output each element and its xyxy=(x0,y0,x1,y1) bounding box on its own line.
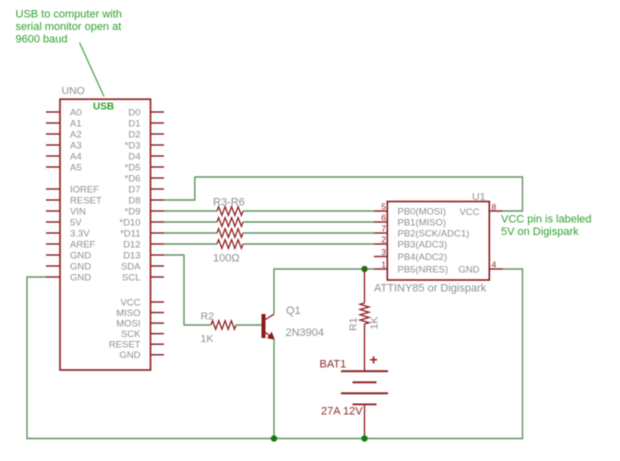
pin stub UNO left GND xyxy=(46,276,60,278)
svg-text:A1: A1 xyxy=(70,118,82,129)
pin stub UNO right *D5 xyxy=(151,166,165,168)
svg-text:9600 baud: 9600 baud xyxy=(16,34,68,46)
svg-text:VCC: VCC xyxy=(120,297,140,308)
pin stub UNO left A0 xyxy=(46,111,60,113)
svg-text:ATTINY85 or Digispark: ATTINY85 or Digispark xyxy=(374,282,487,294)
resistor R3 (100 ohm) xyxy=(217,207,243,216)
svg-text:*D3: *D3 xyxy=(125,140,141,151)
svg-text:D2: D2 xyxy=(128,129,140,140)
svg-text:A2: A2 xyxy=(70,129,82,140)
wire D13 to R2 (base drive) xyxy=(164,255,211,325)
lead R1 bottom to BAT1 xyxy=(364,324,366,371)
svg-text:5V on Digispark: 5V on Digispark xyxy=(501,226,579,238)
svg-text:VCC pin is labeled: VCC pin is labeled xyxy=(501,214,592,226)
svg-text:A5: A5 xyxy=(70,162,82,173)
svg-text:VCC: VCC xyxy=(459,207,479,218)
svg-text:*D10: *D10 xyxy=(119,217,140,228)
svg-text:SCL: SCL xyxy=(122,272,140,283)
svg-text:AREF: AREF xyxy=(70,239,96,250)
svg-text:PB4(ADC2): PB4(ADC2) xyxy=(398,252,448,263)
svg-text:4: 4 xyxy=(492,260,497,270)
svg-text:8: 8 xyxy=(492,202,497,212)
svg-text:RESET: RESET xyxy=(70,195,102,206)
pin stub U1 pin 2 (PB3(ADC3)) xyxy=(374,243,387,245)
svg-text:7: 7 xyxy=(381,224,386,234)
svg-text:serial monitor open at: serial monitor open at xyxy=(16,21,122,33)
pin stub U1 pin 7 (PB2(SCK/ADC1)) xyxy=(374,232,387,234)
svg-text:USB to computer with: USB to computer with xyxy=(16,8,122,20)
wire UNO GND to ground bus xyxy=(27,269,523,439)
svg-text:UNO: UNO xyxy=(62,85,85,97)
wire R6 right to U1 xyxy=(243,243,374,245)
IC UNO: Arduino UNO body xyxy=(60,99,151,370)
svg-text:R1: R1 xyxy=(348,317,360,331)
svg-text:MOSI: MOSI xyxy=(116,318,140,329)
pin stub UNO right SCL xyxy=(151,276,165,278)
transistor Q1 collector lead xyxy=(266,314,275,319)
resistor R2 (1K) xyxy=(211,321,236,330)
svg-text:2: 2 xyxy=(381,235,386,245)
pin stub U1 pin 3 (PB4(ADC2)) xyxy=(374,256,387,258)
transistor Q1 emitter arrow xyxy=(267,332,275,340)
svg-text:IOREF: IOREF xyxy=(70,184,99,195)
pin stub UNO left 5V xyxy=(46,221,60,223)
svg-text:SDA: SDA xyxy=(121,261,141,272)
pin stub UNO right VCC (ICSP) xyxy=(151,301,165,303)
junction node BAT1/ground bus xyxy=(361,435,367,441)
pin stub UNO left A1 xyxy=(46,122,60,124)
pin stub UNO right *D6 xyxy=(151,177,165,179)
svg-text:2N3904: 2N3904 xyxy=(286,327,325,339)
svg-text:3: 3 xyxy=(381,247,386,257)
svg-text:GND: GND xyxy=(70,250,91,261)
pin stub UNO left GND xyxy=(46,254,60,256)
wire R5 right to U1 xyxy=(243,232,374,234)
svg-text:PB1(MISO): PB1(MISO) xyxy=(398,217,447,228)
transistor Q1 2N3904 base bar xyxy=(262,314,266,338)
pin stub U1 pin 8 (VCC) xyxy=(489,210,502,212)
pin stub UNO right SDA xyxy=(151,265,165,267)
resistor R4 (100 ohm) xyxy=(217,218,243,227)
svg-text:*D11: *D11 xyxy=(120,228,140,239)
IC U1 ATTINY85 body xyxy=(387,202,489,281)
svg-text:100Ω: 100Ω xyxy=(213,253,240,265)
pin stub UNO right *D11 xyxy=(151,232,165,234)
wire BAT1 negative to ground bus xyxy=(364,404,366,438)
resistor R6 (100 ohm) xyxy=(217,240,243,249)
svg-text:D13: D13 xyxy=(123,250,140,261)
wire *D9..D12 row to R6 left xyxy=(164,243,217,245)
pin stub UNO right D7 xyxy=(151,188,165,190)
battery BAT1 plate 4 (short) xyxy=(353,403,377,405)
svg-text:Q1: Q1 xyxy=(286,305,301,317)
svg-text:R3-R6: R3-R6 xyxy=(213,197,245,209)
svg-text:GND: GND xyxy=(70,261,91,272)
resistor R1 (1K) xyxy=(360,303,369,324)
wire Q1 emitter to ground bus xyxy=(273,339,275,439)
battery BAT1 plate 2 (short) xyxy=(353,381,377,383)
pin stub UNO left A4 xyxy=(46,155,60,157)
svg-text:D1: D1 xyxy=(128,118,140,129)
junction node PB5/R1 xyxy=(361,266,367,272)
svg-text:R2: R2 xyxy=(201,311,215,323)
wire R3 right to U1 xyxy=(243,210,374,212)
svg-text:1: 1 xyxy=(381,260,386,270)
wire D8 to U1 VCC (net VCC) xyxy=(164,177,523,211)
transistor Q1 emitter lead xyxy=(266,333,275,340)
pin stub UNO right MISO (ICSP) xyxy=(151,312,165,314)
pin stub UNO left A3 xyxy=(46,144,60,146)
svg-text:D8: D8 xyxy=(128,195,140,206)
svg-text:A4: A4 xyxy=(70,151,82,162)
pin stub U1 pin 4 (GND) xyxy=(489,268,502,270)
pin stub UNO left 3.3V xyxy=(46,232,60,234)
pin stub UNO left A5 xyxy=(46,166,60,168)
wire R4 right to U1 xyxy=(243,221,374,223)
svg-text:D7: D7 xyxy=(128,184,140,195)
svg-text:*D9: *D9 xyxy=(125,206,141,217)
note leader line to USB xyxy=(80,43,105,97)
svg-text:RESET: RESET xyxy=(109,340,141,351)
pin stub UNO right D4 xyxy=(151,155,165,157)
pin stub UNO left IOREF xyxy=(46,188,60,190)
pin stub UNO left AREF xyxy=(46,243,60,245)
pin stub UNO left VIN xyxy=(46,210,60,212)
svg-text:PB0(MOSI): PB0(MOSI) xyxy=(398,206,447,217)
svg-text:USB: USB xyxy=(93,102,114,113)
svg-text:D4: D4 xyxy=(128,151,140,162)
svg-text:SCK: SCK xyxy=(121,329,141,340)
wire *D9..D12 row to R5 left xyxy=(164,232,217,234)
pin stub U1 pin 5 (PB0(MOSI)) xyxy=(374,210,387,212)
svg-text:PB5(NRES): PB5(NRES) xyxy=(398,264,449,275)
svg-text:5: 5 xyxy=(381,202,386,212)
pin stub UNO right D1 xyxy=(151,122,165,124)
svg-text:27A 12V: 27A 12V xyxy=(321,406,363,418)
wire *D9..D12 row to R3 left xyxy=(164,210,217,212)
pin stub U1 pin 1 (PB5(NRES)) xyxy=(374,268,387,270)
pin stub UNO right D8 xyxy=(151,199,165,201)
junction node emitter/ground bus xyxy=(271,435,277,441)
svg-text:A3: A3 xyxy=(70,140,82,151)
wire U1 PB5 to Q1 collector (node R1 top) xyxy=(274,269,374,314)
svg-text:PB2(SCK/ADC1): PB2(SCK/ADC1) xyxy=(398,228,470,239)
svg-text:GND: GND xyxy=(119,350,140,361)
svg-text:D0: D0 xyxy=(128,107,140,118)
pin stub UNO right GND (ICSP) xyxy=(151,354,165,356)
resistor R5 (100 ohm) xyxy=(217,229,243,238)
pin stub UNO right SCK (ICSP) xyxy=(151,333,165,335)
svg-text:3.3V: 3.3V xyxy=(70,228,90,239)
svg-text:VIN: VIN xyxy=(70,206,86,217)
svg-text:5V: 5V xyxy=(70,217,82,228)
svg-text:GND: GND xyxy=(70,272,91,283)
wire R2 to Q1 base xyxy=(236,324,262,326)
battery BAT1 plate 1 (long, +) xyxy=(341,370,388,372)
pin stub UNO right *D10 xyxy=(151,221,165,223)
svg-text:+: + xyxy=(370,352,378,368)
pin stub UNO right *D9 xyxy=(151,210,165,212)
svg-text:MISO: MISO xyxy=(116,308,140,319)
pin stub UNO right D13 xyxy=(151,254,165,256)
pin stub U1 pin 6 (PB1(MISO)) xyxy=(374,221,387,223)
svg-text:BAT1: BAT1 xyxy=(320,359,347,371)
battery BAT1 plate 3 (long) xyxy=(341,392,388,394)
svg-text:A0: A0 xyxy=(70,107,82,118)
pin stub UNO right D2 xyxy=(151,133,165,135)
svg-text:1K: 1K xyxy=(201,333,214,345)
pin stub UNO right *D3 xyxy=(151,144,165,146)
svg-text:PB3(ADC3): PB3(ADC3) xyxy=(398,239,448,250)
svg-text:*D6: *D6 xyxy=(125,173,141,184)
svg-text:1K: 1K xyxy=(369,317,381,330)
pin stub UNO left RESET xyxy=(46,199,60,201)
svg-text:U1: U1 xyxy=(472,191,486,203)
pin stub UNO right RESET (ICSP) xyxy=(151,343,165,345)
pin stub UNO left GND xyxy=(46,265,60,267)
pin stub UNO right D0 xyxy=(151,111,165,113)
pin stub UNO right MOSI (ICSP) xyxy=(151,322,165,324)
pin stub UNO left A2 xyxy=(46,133,60,135)
wire *D9..D12 row to R4 left xyxy=(164,221,217,223)
svg-text:*D5: *D5 xyxy=(125,162,141,173)
svg-text:GND: GND xyxy=(458,264,479,275)
wire/lead R1 top xyxy=(364,269,366,303)
pin stub UNO right D12 xyxy=(151,243,165,245)
svg-text:D12: D12 xyxy=(123,239,140,250)
svg-text:6: 6 xyxy=(381,213,386,223)
